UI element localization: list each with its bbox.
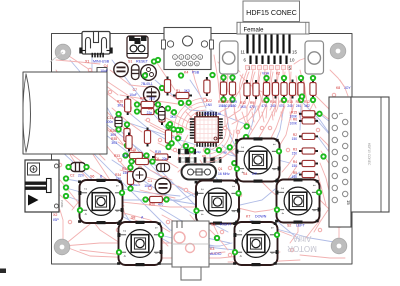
svg-text:22p: 22p [147,111,153,115]
svg-text:Female: Female [244,27,265,33]
svg-text:R19: R19 [155,150,161,154]
svg-text:2: 2 [200,189,204,191]
svg-text:C7: C7 [133,88,137,92]
svg-text:JOY: JOY [344,86,351,90]
svg-text:470: 470 [249,105,255,109]
svg-text:150: 150 [292,152,298,156]
svg-text:R33: R33 [114,154,120,158]
svg-text:3K3: 3K3 [184,89,190,93]
svg-text:470: 470 [279,104,285,108]
svg-text:1K5: 1K5 [122,154,128,158]
svg-text:PSB: PSB [192,71,200,75]
svg-text:240: 240 [296,104,302,108]
svg-text:4: 4 [281,213,285,215]
svg-text:3: 3 [115,210,119,212]
svg-text:HDF15 CONEC: HDF15 CONEC [367,143,371,166]
svg-text:K3: K3 [210,247,214,251]
svg-text:150: 150 [292,137,298,141]
svg-text:1: 1 [312,185,316,187]
svg-text:AltifA: AltifA [292,234,311,243]
svg-text:3: 3 [270,252,274,254]
svg-text:3: 3 [154,252,158,254]
svg-text:3K3: 3K3 [111,141,117,145]
svg-text:K2: K2 [276,72,280,76]
svg-text:IC3: IC3 [195,112,201,116]
svg-text:ISP: ISP [53,218,59,222]
svg-text:S4: S4 [243,172,247,176]
svg-text:MINI-USB: MINI-USB [93,60,110,64]
svg-text:DOWN: DOWN [255,215,267,219]
svg-text:470: 470 [261,104,267,108]
svg-text:UP: UP [252,172,258,176]
svg-text:100n: 100n [106,120,113,124]
svg-text:10uF: 10uF [144,184,152,188]
svg-text:3K3: 3K3 [117,104,123,108]
svg-text:C6: C6 [155,157,159,161]
svg-text:2: 2 [123,230,127,232]
svg-text:4: 4 [84,213,88,215]
svg-text:3: 3 [312,210,316,212]
svg-text:4: 4 [239,255,243,257]
svg-text:100K: 100K [290,121,298,125]
svg-text:1: 1 [270,227,274,229]
svg-text:150: 150 [222,104,228,108]
svg-text:10: 10 [290,58,295,63]
svg-text:R1: R1 [176,89,180,93]
svg-text:S1: S1 [128,60,132,64]
svg-text:2: 2 [281,188,285,190]
svg-text:1K0: 1K0 [240,105,246,109]
svg-text:78L05-1: 78L05-1 [141,82,153,86]
svg-text:C4: C4 [104,64,108,68]
svg-text:1: 1 [154,227,158,229]
svg-text:K8: K8 [336,86,340,90]
svg-text:3: 3 [232,211,236,213]
svg-text:Q1: Q1 [218,167,222,171]
svg-text:22n: 22n [78,174,84,178]
svg-text:1.8mm: 1.8mm [131,183,140,187]
svg-text:AUDIO: AUDIO [210,252,222,256]
svg-text:15: 15 [346,200,351,205]
svg-text:150: 150 [231,104,237,108]
svg-text:K4: K4 [184,71,188,75]
svg-text:3K3: 3K3 [170,115,176,119]
svg-text:S6: S6 [90,175,94,179]
svg-text:1K2: 1K2 [304,104,310,108]
svg-text:S8: S8 [131,216,135,220]
svg-text:X1: X1 [85,60,89,64]
svg-text:R20: R20 [149,203,155,207]
svg-text:S2: S2 [287,224,291,228]
svg-text:470: 470 [158,203,164,207]
svg-text:R27: R27 [140,97,146,101]
svg-text:150: 150 [123,171,129,175]
svg-text:1: 1 [272,144,276,146]
svg-text:2: 2 [84,188,88,190]
svg-text:C9: C9 [202,154,206,158]
svg-text:K7: K7 [246,215,250,219]
svg-text:MOTOR: MOTOR [287,244,317,253]
svg-text:RIGHT: RIGHT [220,223,232,227]
svg-text:LEFT: LEFT [296,224,306,228]
svg-text:PWM: PWM [60,200,64,208]
svg-text:22n: 22n [162,157,168,161]
svg-text:1: 1 [115,185,119,187]
svg-text:3: 3 [272,169,276,171]
svg-text:RESET: RESET [136,60,149,64]
svg-text:HDF15 CONEC: HDF15 CONEC [246,8,297,17]
svg-text:22p: 22p [196,150,201,154]
svg-text:3K3: 3K3 [149,97,155,101]
svg-text:MEGA8-AI: MEGA8-AI [204,112,221,116]
svg-text:150: 150 [292,164,298,168]
svg-text:X2: X2 [53,213,57,217]
svg-text:4: 4 [200,214,204,216]
svg-text:S3: S3 [211,223,215,227]
svg-text:C1: C1 [148,179,152,183]
svg-text:11: 11 [240,50,245,55]
svg-text:10uF: 10uF [129,93,137,97]
svg-text:16 MHz: 16 MHz [218,172,230,176]
svg-text:15: 15 [292,50,297,55]
svg-text:4: 4 [123,255,127,257]
svg-text:10uF: 10uF [100,69,108,73]
svg-text:C2: C2 [70,174,74,178]
svg-text:2: 2 [241,147,245,149]
svg-text:2: 2 [239,230,243,232]
svg-text:1N0: 1N0 [206,103,212,107]
svg-text:1: 1 [232,186,236,188]
svg-text:240: 240 [270,104,276,108]
svg-text:240: 240 [287,104,293,108]
